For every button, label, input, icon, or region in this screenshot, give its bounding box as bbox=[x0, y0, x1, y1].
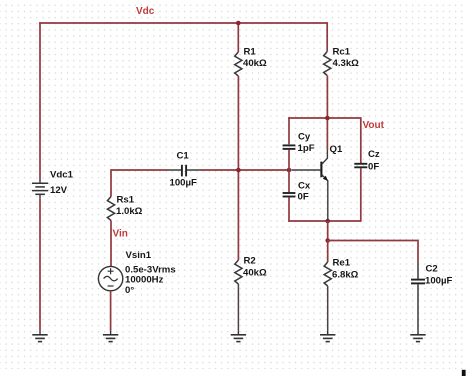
svg-text:40kΩ: 40kΩ bbox=[243, 58, 267, 69]
junction base rail / Cy-Cx bbox=[287, 168, 292, 173]
svg-text:R1: R1 bbox=[244, 47, 257, 58]
wire top rail Vdc bbox=[39, 22, 327, 24]
wire box bottom bbox=[288, 220, 361, 222]
wire base rail left (Rs1 top to C1) bbox=[111, 169, 168, 171]
svg-text:0°: 0° bbox=[125, 285, 134, 296]
wire Vsin1 to ground bbox=[110, 291, 112, 331]
wire Re1 bottom lead bbox=[327, 286, 329, 331]
svg-text:100µF: 100µF bbox=[170, 178, 198, 189]
wire Rs1 to Vsin1 bbox=[110, 221, 112, 267]
svg-text:Vout: Vout bbox=[363, 120, 385, 131]
svg-text:40kΩ: 40kΩ bbox=[243, 267, 267, 278]
svg-text:10000Hz: 10000Hz bbox=[125, 275, 164, 286]
wire R1 bottom to base node bbox=[237, 76, 239, 260]
capacitor C2 100uF bbox=[411, 262, 453, 331]
ground (Vsin1) bbox=[103, 331, 118, 342]
wire Re1 top bbox=[327, 241, 329, 263]
svg-text:Cz: Cz bbox=[368, 149, 380, 160]
transistor Q1 bbox=[292, 144, 343, 221]
ground (Re1) bbox=[320, 331, 335, 342]
ground (battery) bbox=[32, 331, 47, 342]
wire box left upper (Cy) bbox=[288, 117, 290, 170]
junction emitter / C2 branch bbox=[325, 238, 330, 243]
svg-text:Vsin1: Vsin1 bbox=[126, 250, 152, 261]
source Vsin1 bbox=[98, 250, 175, 296]
svg-text:R2: R2 bbox=[244, 256, 256, 267]
wire left drop to Vdc1 bbox=[39, 22, 41, 178]
wire R2 bottom lead bbox=[237, 284, 239, 331]
svg-text:Vin: Vin bbox=[113, 229, 128, 240]
svg-text:100µF: 100µF bbox=[425, 276, 453, 287]
svg-text:0F: 0F bbox=[298, 191, 309, 202]
wire Rc1 drop from Vdc rail bbox=[326, 22, 328, 51]
svg-text:Re1: Re1 bbox=[333, 258, 351, 269]
wire junction to C2 bbox=[328, 240, 418, 242]
wire feedback box top bbox=[288, 117, 361, 119]
svg-text:Cy: Cy bbox=[298, 132, 311, 143]
capacitor Cx 0F bbox=[283, 180, 311, 202]
svg-text:Vdc: Vdc bbox=[136, 6, 155, 17]
resistor Rs1 1.0k bbox=[107, 194, 142, 220]
wire C2 drop bbox=[417, 240, 419, 262]
junction box top / collector bbox=[325, 116, 330, 121]
cursor mark bottom right bbox=[462, 370, 466, 376]
svg-text:4.3kΩ: 4.3kΩ bbox=[333, 58, 360, 69]
resistor R1 40k bbox=[235, 47, 267, 76]
svg-text:Rs1: Rs1 bbox=[117, 194, 135, 205]
svg-text:1pF: 1pF bbox=[298, 143, 315, 154]
wire Rc1 bottom to Q1 collector bbox=[326, 76, 328, 151]
svg-text:0F: 0F bbox=[368, 161, 379, 172]
junction Vdc rail / R1 bbox=[236, 21, 241, 26]
wire Rs1 corner drop bbox=[110, 169, 112, 196]
svg-text:12V: 12V bbox=[50, 185, 68, 196]
wire box right (Vout drop through Cz) bbox=[360, 117, 362, 222]
wire C1 to base node bbox=[200, 169, 291, 171]
junction base rail / R1-R2 bbox=[236, 168, 241, 173]
svg-text:1.0kΩ: 1.0kΩ bbox=[116, 206, 143, 217]
svg-text:C1: C1 bbox=[177, 151, 190, 162]
capacitor C1 100uF bbox=[168, 151, 200, 189]
resistor Rc1 4.3k bbox=[324, 46, 360, 75]
junction box bottom / emitter bbox=[325, 219, 330, 224]
resistor Re1 6.8k bbox=[324, 258, 359, 286]
wire Vdc1 bottom to ground bbox=[39, 199, 41, 331]
capacitor Cy 1pF bbox=[283, 132, 315, 155]
wire emitter node to Re1/C2 junction bbox=[327, 221, 329, 241]
svg-text:Vdc1: Vdc1 bbox=[50, 170, 74, 181]
wire R1 drop from Vdc rail bbox=[237, 23, 239, 52]
ground (R2) bbox=[231, 331, 246, 342]
svg-text:C2: C2 bbox=[426, 264, 438, 275]
svg-text:Cx: Cx bbox=[298, 180, 311, 191]
battery Vdc1 12V bbox=[32, 170, 74, 199]
capacitor Cz 0F bbox=[354, 149, 380, 172]
svg-text:6.8kΩ: 6.8kΩ bbox=[332, 269, 359, 280]
wire box left lower (Cx) bbox=[288, 170, 290, 222]
resistor R2 40k bbox=[235, 256, 267, 284]
ground (C2) bbox=[410, 331, 425, 342]
svg-text:Rc1: Rc1 bbox=[333, 46, 351, 57]
svg-text:Q1: Q1 bbox=[330, 144, 343, 155]
